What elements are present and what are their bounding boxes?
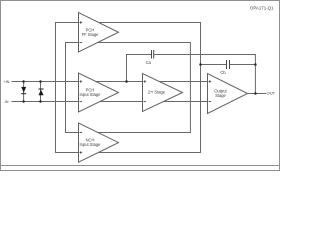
svg-text:Cb: Cb — [220, 70, 226, 75]
svg-text:FF Stage: FF Stage — [82, 32, 100, 37]
svg-text:Stage: Stage — [215, 93, 226, 98]
svg-text:OUT: OUT — [267, 91, 276, 96]
svg-text:-IN: -IN — [3, 100, 8, 104]
svg-text:Input Stage: Input Stage — [80, 142, 102, 147]
svg-text:Input Stage: Input Stage — [80, 92, 102, 97]
svg-text:OPA171-Q1: OPA171-Q1 — [250, 5, 274, 10]
svg-text:Ca: Ca — [146, 60, 152, 65]
svg-text:+IN: +IN — [3, 80, 9, 84]
